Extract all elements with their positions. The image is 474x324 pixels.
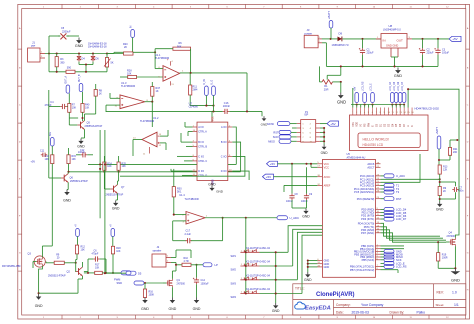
node R10 out — [195, 264, 197, 266]
net pill LCD_D5 — [381, 212, 385, 214]
transistor Q4 2N7000 — [449, 241, 450, 243]
svg-text:PD7 (AIN1): PD7 (AIN1) — [361, 231, 374, 235]
svg-text:EasyEDA: EasyEDA — [305, 305, 331, 311]
ground symbol Q1 — [171, 298, 173, 300]
svg-text:+V: +V — [75, 224, 77, 227]
svg-text:PWM: PWM — [114, 278, 120, 282]
wire Q5 collector — [84, 114, 86, 121]
wire C1 bottom to gnd rail — [362, 55, 364, 67]
svg-text:ISP: ISP — [304, 114, 308, 117]
keypad nest wires — [288, 226, 322, 253]
net port vertical b — [212, 86, 216, 96]
wire Q5 emitter — [84, 129, 86, 138]
net port lower left a — [76, 229, 80, 237]
resistor R10 10K — [51, 155, 54, 164]
capacitor C9 100nF — [306, 194, 308, 196]
svg-text:1000uF: 1000uF — [201, 282, 210, 285]
svg-text:LCD_D7: LCD_D7 — [396, 217, 407, 221]
U8 ground pin stubs — [390, 48, 392, 57]
connector J2 speaker — [152, 254, 166, 267]
wire C4 to R7 — [67, 106, 68, 108]
svg-text:2N5551S-RTA/P: 2N5551S-RTA/P — [48, 275, 66, 278]
resistor R19 100R — [437, 253, 440, 261]
wire D9 to U8 IN — [343, 38, 382, 40]
svg-text:PD3 (INT1): PD3 (INT1) — [361, 217, 374, 221]
node bus x49 — [48, 52, 50, 54]
wire VCC2 join — [310, 164, 312, 168]
transistor Q5 — [80, 122, 82, 129]
svg-text:U1.4: U1.4 — [179, 193, 185, 197]
node Q3 gnd — [38, 292, 40, 294]
transistor Q7 — [113, 186, 115, 193]
node R1 right — [340, 81, 342, 83]
U5 left pins — [317, 163, 322, 165]
net pill U_ADC mcu — [381, 175, 385, 177]
svg-text:SW2: SW2 — [231, 269, 237, 272]
net pill SND — [134, 281, 144, 285]
svg-text:10K: 10K — [107, 165, 112, 168]
svg-text:CTRL B: CTRL B — [198, 146, 207, 149]
op-amp U1.1 — [163, 66, 180, 82]
svg-text:TL074BCDR: TL074BCDR — [185, 198, 199, 201]
wire to U7 VCC — [211, 111, 213, 122]
power flag +5V at P1 — [327, 121, 339, 126]
wire PC2 long — [381, 154, 421, 182]
svg-text:10K: 10K — [122, 165, 127, 168]
capacitor C14 1000uF — [196, 278, 198, 280]
svg-text:100nF: 100nF — [78, 151, 85, 154]
wire C14 gnd — [196, 284, 198, 297]
svg-text:5K1: 5K1 — [177, 190, 182, 193]
lcd inner screen — [358, 133, 420, 148]
svg-text:GND GND: GND GND — [386, 44, 398, 48]
trimmer R4 5K — [105, 58, 108, 68]
svg-text:RF740SPBL-PBF: RF740SPBL-PBF — [2, 265, 21, 268]
net pill U_ADC left — [277, 216, 288, 220]
title block frame — [293, 284, 466, 315]
svg-text:2200uF: 2200uF — [62, 30, 71, 33]
svg-text:100K: 100K — [149, 293, 155, 296]
wire up to C1cap — [48, 36, 50, 54]
svg-text:LCD_D5: LCD_D5 — [393, 81, 396, 91]
node C8 tap — [291, 163, 293, 165]
svg-text:LCD_RS: LCD_RS — [361, 81, 364, 91]
svg-text:VDD: VDD — [357, 122, 359, 127]
svg-text:+5V: +5V — [266, 175, 271, 179]
net pill LCD_D5 lcd — [394, 93, 398, 103]
svg-text:U5: U5 — [347, 152, 351, 156]
resistor R5 390 horizontal — [66, 70, 75, 73]
svg-text:100uF: 100uF — [442, 52, 450, 55]
wire AREF — [284, 184, 317, 186]
svg-text:PD4 (XCK/T0): PD4 (XCK/T0) — [358, 221, 375, 225]
svg-text:1/1: 1/1 — [454, 303, 459, 307]
svg-text:B I/O: B I/O — [198, 141, 204, 144]
transistor Q2 — [78, 268, 80, 275]
net pill LCD_D7 lcd — [402, 93, 406, 103]
net pill LCD_D6 lcd — [398, 93, 402, 103]
svg-text:10K: 10K — [72, 158, 77, 161]
svg-text:100nF: 100nF — [301, 200, 308, 203]
wire C1 top lead — [362, 39, 364, 48]
pushbutton SW3 — [240, 279, 259, 281]
wire PB7 — [381, 269, 399, 271]
net pill T1 — [381, 184, 385, 186]
wire R20 to opamp node — [133, 51, 155, 53]
svg-text:470pF: 470pF — [92, 253, 99, 256]
wire J3 pin2 down to rail — [322, 42, 326, 44]
header P1 ISP — [301, 120, 316, 143]
svg-text:U_G: U_G — [211, 80, 213, 85]
svg-text:PC5 (ADC5/SCL): PC5 (ADC5/SCL) — [354, 190, 374, 194]
net pill SCK mcu — [381, 259, 385, 261]
lcd U6 body — [350, 115, 429, 151]
wire PD4 jog — [381, 223, 441, 236]
svg-text:CTRL C: CTRL C — [198, 160, 207, 163]
svg-text:GND: GND — [77, 144, 85, 148]
wire bus into R20 — [107, 53, 114, 55]
svg-text:Drawn By:: Drawn By: — [390, 311, 405, 315]
wire left channel rows — [88, 163, 236, 165]
lcd backlight wire — [407, 89, 409, 107]
svg-text:C I/O: C I/O — [221, 156, 227, 159]
mosfet Q1 2N7000 — [166, 282, 167, 284]
ground symbol keypad — [275, 303, 277, 305]
svg-text:IN: IN — [383, 39, 386, 43]
transistor Q6 — [63, 175, 65, 182]
node bus x107 — [106, 52, 108, 54]
svg-text:RS: RS — [365, 123, 367, 127]
svg-text:GND: GND — [112, 206, 120, 210]
resistor R9b 2K — [438, 187, 441, 196]
node inv input feed — [154, 51, 156, 53]
svg-text:100nF: 100nF — [223, 105, 231, 108]
svg-text:A I/O: A I/O — [221, 126, 227, 129]
P1 pin stubs — [297, 123, 301, 125]
U7 right wires nest — [232, 127, 236, 164]
svg-text:D5: D5 — [138, 272, 142, 276]
wire C4 left — [49, 106, 61, 108]
svg-text:Sheet:: Sheet: — [436, 303, 445, 307]
ground symbol R1 — [340, 93, 342, 96]
net pill LCD_E — [381, 262, 385, 264]
svg-text:10K: 10K — [72, 106, 77, 109]
svg-text:12K: 12K — [443, 169, 448, 172]
wire Q4 source — [454, 246, 456, 268]
svg-text:SIG: SIG — [50, 132, 52, 136]
wire Q7 emitter — [117, 193, 119, 200]
wire PD7 jog — [381, 233, 439, 242]
svg-text:1K: 1K — [156, 90, 159, 93]
node R13 bottom — [439, 178, 441, 180]
wire R28 to noninv — [137, 76, 164, 78]
svg-text:SW1: SW1 — [231, 255, 237, 258]
svg-text:U8: U8 — [389, 24, 393, 28]
svg-text:390: 390 — [67, 66, 72, 69]
wire R9b gnd — [439, 196, 441, 202]
svg-text:PD2 (INT0): PD2 (INT0) — [361, 214, 374, 218]
wire R1 to gnd — [340, 82, 342, 93]
resistor R16 100K — [143, 289, 146, 298]
resistor R18 10K — [111, 246, 114, 254]
mosfet Q3 IRF740 — [36, 261, 37, 263]
ground symbol R9b — [439, 202, 441, 204]
power flag +5V main — [449, 36, 461, 41]
svg-text:ADC6: ADC6 — [367, 162, 374, 166]
svg-text:HD44780/LCD-1602: HD44780/LCD-1602 — [415, 106, 440, 110]
diode D4 — [77, 56, 81, 59]
node U1.3 out — [151, 101, 153, 103]
node bus x79 — [78, 52, 80, 54]
svg-text:OUT_A: OUT_A — [65, 75, 68, 83]
svg-text:GND: GND — [35, 304, 43, 308]
svg-text:+V: +V — [111, 224, 113, 227]
wire Q3 source gnd — [39, 266, 43, 294]
svg-text:GND: GND — [302, 214, 310, 218]
wire Q3 gate — [33, 261, 36, 263]
net pill SND mcu — [381, 250, 385, 252]
ground symbol input cap — [78, 38, 80, 41]
op-amp U1.4 — [186, 212, 205, 225]
net pill MISO mcu — [381, 256, 385, 258]
svg-text:+5V: +5V — [31, 160, 36, 163]
svg-text:MOSI: MOSI — [267, 122, 274, 126]
vertical channel x100 — [99, 130, 101, 218]
wire C2 top lead — [422, 39, 424, 48]
node base — [75, 262, 77, 264]
net flag +BATT lcd side — [437, 136, 441, 149]
U1.2 output wire — [133, 139, 142, 141]
wire Q3 drain up — [41, 246, 43, 257]
analog switch U7 CD4066 body — [197, 122, 228, 180]
resistor R15 10K — [67, 155, 70, 164]
lcd pin risers — [352, 105, 354, 108]
svg-text:+5V: +5V — [270, 162, 275, 166]
svg-text:+5V: +5V — [330, 122, 335, 126]
net pill bottom left — [113, 272, 121, 274]
wire Q6 collector — [67, 172, 69, 174]
net port vertical a — [205, 86, 209, 96]
svg-text:U_ADC: U_ADC — [396, 174, 405, 178]
net pill LCD_D4 lcd — [391, 93, 395, 103]
U7 right pins — [228, 126, 233, 128]
U8 output pin stub — [407, 38, 412, 40]
wire C2 bottom to gnd rail — [422, 55, 424, 67]
svg-text:T1: T1 — [396, 184, 400, 188]
ground symbol C8C9 — [305, 209, 307, 211]
wire +BATT down — [438, 149, 440, 165]
svg-text:Your Company: Your Company — [361, 303, 384, 307]
svg-text:CTRL A: CTRL A — [198, 131, 207, 134]
bottom return bus — [49, 71, 107, 73]
net flag IN vertical — [131, 30, 135, 38]
U7 VCC pin — [211, 117, 213, 122]
svg-text:2N5551S-RTK/P: 2N5551S-RTK/P — [106, 193, 124, 196]
svg-text:SCK: SCK — [273, 135, 279, 139]
wire PC1 long — [381, 178, 440, 180]
wire R10 to LP — [191, 264, 203, 266]
node Q4 gate R19 — [437, 241, 439, 243]
U1.2 supply stub — [149, 147, 151, 154]
mcu U5 body — [322, 160, 375, 278]
wire inv input — [154, 52, 156, 68]
wire C17 to output — [191, 240, 223, 242]
svg-text:GND: GND — [193, 307, 201, 311]
wire R7 R40 bottoms — [68, 112, 70, 118]
keypad gnd bus — [275, 252, 277, 303]
capacitor C16 100nF — [223, 110, 225, 112]
wire U1.1 output — [180, 72, 247, 74]
wire C3 top lead — [437, 39, 439, 48]
svg-text:LCD_D7: LCD_D7 — [401, 81, 404, 91]
svg-text:GND: GND — [169, 307, 177, 311]
capacitor C12 100nF — [81, 154, 83, 156]
node Q1 gate tap — [144, 282, 146, 284]
wire R11 bottom — [189, 95, 191, 106]
svg-text:REV:: REV: — [437, 291, 444, 295]
svg-text:pwr: pwr — [31, 44, 35, 48]
svg-text:D9: D9 — [339, 32, 343, 36]
svg-text:A I/O: A I/O — [198, 126, 204, 129]
wire long channel 111 — [106, 110, 223, 112]
svg-text:LM2940IMP-5.0: LM2940IMP-5.0 — [383, 28, 401, 31]
svg-text:2N7000: 2N7000 — [177, 283, 186, 286]
ground symbol Q7 — [115, 201, 117, 203]
svg-text:4.7R: 4.7R — [184, 260, 189, 263]
wire gnd to lcd vss — [352, 88, 354, 105]
node bus x56.7 — [56, 52, 58, 54]
svg-text:MISO: MISO — [268, 140, 275, 144]
svg-text:10K: 10K — [95, 266, 100, 269]
diode D5 — [91, 56, 95, 59]
wire Q2 right bus — [84, 271, 88, 273]
wire J2 to R10 — [171, 262, 176, 264]
resistor R21 200R — [448, 148, 451, 156]
net flag +BATT top — [329, 21, 333, 29]
svg-text:B I/O: B I/O — [221, 141, 227, 144]
main bus from J1 — [45, 53, 124, 55]
resistor R7 10K — [68, 104, 71, 113]
resistor R10s 4.7R — [182, 263, 191, 266]
wire down to C14 — [196, 265, 198, 278]
svg-text:Date:: Date: — [336, 311, 344, 315]
ground symbol U7 — [211, 186, 213, 188]
wire R9 to base node — [64, 262, 75, 264]
wire U8 OUT to +5V flag — [412, 38, 449, 40]
wire PD6 jog — [381, 230, 447, 240]
net port lower left b — [111, 229, 115, 237]
wire Q1 drain — [171, 271, 173, 279]
svg-text:10K: 10K — [81, 249, 86, 252]
svg-text:GND: GND — [321, 151, 329, 155]
net pill T3 — [381, 191, 385, 193]
svg-text:ClonePi(AVR): ClonePi(AVR) — [316, 292, 355, 298]
capacitor C2 220uF — [422, 48, 424, 50]
net pill T2 — [381, 188, 385, 190]
wire P1 pin2 to +5V — [320, 123, 327, 125]
svg-text:SW3: SW3 — [231, 282, 237, 285]
svg-text:TL074BCDR: TL074BCDR — [121, 85, 135, 88]
node battery junction — [330, 38, 332, 40]
svg-text:5K: 5K — [111, 61, 114, 64]
resistor R40 10K — [81, 104, 84, 113]
svg-text:2K: 2K — [443, 190, 446, 193]
svg-text:2019-06-03: 2019-06-03 — [352, 311, 369, 315]
ground symbol R16 — [144, 298, 146, 300]
svg-text:AVCC: AVCC — [324, 176, 331, 179]
bottom left gnd loop — [39, 292, 78, 294]
svg-text:GND: GND — [436, 207, 444, 211]
capacitor C5 2200uF — [60, 33, 66, 39]
resistor R20 2K — [124, 52, 134, 55]
ground symbol U5 — [307, 272, 309, 274]
wire PB0 — [381, 245, 405, 247]
svg-text:+5V: +5V — [354, 86, 357, 91]
lcd +5V rail — [351, 104, 404, 106]
wire R17 to node — [102, 272, 113, 274]
svg-text:Palko: Palko — [417, 311, 426, 315]
resistor R8 1K — [94, 90, 97, 97]
svg-text:speaker: speaker — [153, 249, 162, 252]
border tick marks and grid labels — [61, 4, 63, 8]
wire R21 to node — [439, 159, 450, 161]
wire gate resistor feed — [46, 262, 54, 264]
P1 pin3 stub wire — [292, 127, 297, 129]
svg-text:2.2uF: 2.2uF — [185, 233, 192, 236]
ground symbol Q4 wide — [454, 268, 456, 271]
node C1 top — [361, 38, 363, 40]
lcd top pins — [352, 108, 354, 116]
svg-text:PB7 (XTAL2/TOSC2): PB7 (XTAL2/TOSC2) — [350, 268, 375, 272]
svg-text:U_ADC: U_ADC — [290, 216, 299, 220]
svg-text:10K: 10K — [127, 72, 132, 75]
svg-text:2N5551S-RTK/P: 2N5551S-RTK/P — [85, 125, 103, 128]
svg-text:VCC: VCC — [212, 116, 214, 121]
resistor R17 10K — [95, 271, 103, 274]
svg-text:PC6 (RESET#): PC6 (RESET#) — [357, 197, 375, 201]
svg-text:GND: GND — [75, 44, 84, 48]
U8 input pin stub — [376, 38, 381, 40]
node keypad ladder tap — [245, 217, 247, 219]
svg-text:RST: RST — [396, 197, 402, 201]
svg-text:1.0: 1.0 — [452, 291, 457, 295]
ground symbol P1 — [323, 145, 325, 147]
svg-text:+BATT: +BATT — [436, 126, 439, 134]
wire R19 bottom join — [438, 267, 455, 269]
svg-text:G: G — [467, 252, 469, 254]
connector J1 — [28, 48, 40, 62]
feedback wire R6 right — [190, 49, 192, 73]
svg-text:D I/O: D I/O — [198, 170, 204, 173]
svg-text:D I/O: D I/O — [221, 170, 227, 173]
wire PB1 — [381, 248, 405, 250]
capacitor C8 100nF — [291, 194, 293, 196]
svg-text:GND: GND — [272, 309, 280, 313]
op-amp U1.3 — [120, 95, 145, 109]
svg-text:ADC7: ADC7 — [367, 165, 374, 169]
net port flag A — [66, 85, 70, 93]
pushbutton SW1 — [240, 251, 259, 253]
svg-text:200: 200 — [453, 151, 458, 154]
wire U1.4 output to U_ADC — [205, 217, 277, 219]
ground rail top right — [326, 65, 438, 67]
resistor R9 20 — [54, 261, 64, 264]
wire PD5 jog — [381, 227, 444, 238]
svg-text:+BATT: +BATT — [327, 11, 331, 19]
svg-text:power: power — [305, 31, 313, 35]
svg-text:220uF: 220uF — [367, 52, 375, 55]
net port flag B — [79, 84, 83, 92]
